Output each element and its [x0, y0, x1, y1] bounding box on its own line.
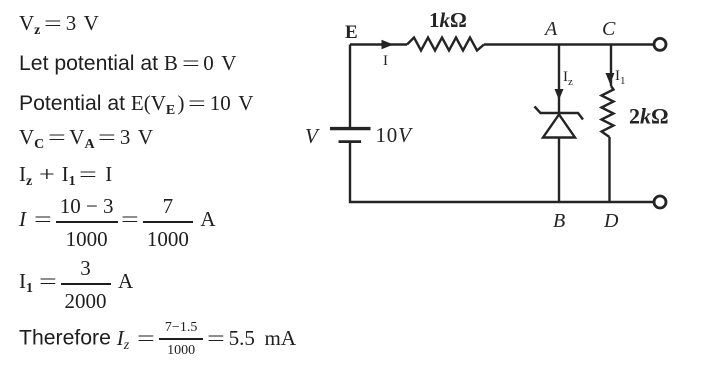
svg-text:I: I [383, 53, 388, 69]
svg-text:10V: 10V [376, 123, 414, 147]
svg-text:I1: I1 [615, 68, 626, 87]
wire left vertical E down to battery [349, 45, 351, 128]
wire resistor to node A to node C to terminal [484, 43, 653, 45]
current arrow Iz [555, 89, 564, 100]
svg-text:2kΩ: 2kΩ [629, 104, 669, 129]
svg-text:E: E [345, 22, 358, 43]
svg-text:D: D [603, 210, 619, 232]
current arrow I [382, 40, 394, 50]
terminal bottom-right [654, 196, 666, 208]
resistor R2 2kOhm vertical zigzag [602, 86, 614, 137]
wire node C down to resistor R2 [610, 45, 612, 87]
wire resistor R2 to bottom rail node D [608, 137, 610, 202]
wire battery down to bottom rail [350, 142, 653, 202]
svg-text:C: C [602, 18, 616, 40]
resistor R1 1kOhm zigzag [407, 38, 484, 51]
battery V plates [330, 127, 371, 130]
current arrow I1 [606, 73, 615, 84]
svg-text:B: B [553, 210, 565, 232]
solution text block [19, 11, 99, 36]
svg-text:V: V [305, 124, 320, 148]
svg-text:1kΩ: 1kΩ [429, 8, 467, 32]
zener diode triangle [543, 115, 575, 138]
zener diode cathode bar with bent ends [535, 107, 584, 120]
wire top-left horizontal E to resistor [350, 43, 407, 45]
svg-text:Iz: Iz [563, 69, 573, 88]
wire node A down to zener [558, 45, 560, 113]
terminal top-right [654, 38, 666, 50]
wire zener to bottom rail node B [558, 138, 560, 203]
svg-text:A: A [543, 18, 558, 40]
